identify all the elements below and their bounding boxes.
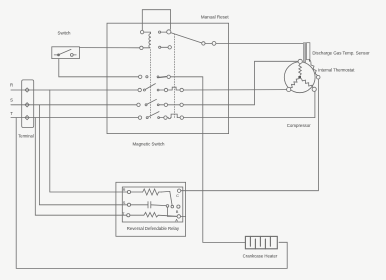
terminal block — [22, 80, 34, 128]
svg-text:Internal Thermostat: Internal Thermostat — [318, 68, 355, 73]
compressor terminal left — [287, 87, 291, 91]
mechanical linkage (coil armature, dashed) — [150, 50, 152, 120]
crankcase heater — [245, 236, 277, 248]
terminal point T — [25, 116, 29, 120]
wire: T main contact to compressor — [184, 91, 315, 117]
relay R input and resistor — [127, 189, 161, 195]
terminal point S — [25, 103, 29, 107]
wire: auxiliary contact to crankcase heater — [170, 77, 245, 243]
svg-text:Switch: Switch — [58, 31, 71, 36]
svg-text:Manual Reset: Manual Reset — [201, 14, 230, 19]
svg-text:S: S — [10, 97, 13, 102]
svg-text:Discharge Gas Temp. Sensor: Discharge Gas Temp. Sensor — [312, 51, 370, 56]
wire: internal thermostat to relay C — [181, 79, 319, 191]
main contact T row — [138, 112, 183, 120]
wire: phase T line — [11, 117, 138, 119]
manual reset contact — [159, 30, 216, 49]
relay S input and capacitor — [127, 202, 166, 208]
wire: S tap to relay S — [39, 105, 127, 205]
relay contact C — [162, 189, 181, 205]
wire: phase R line — [11, 89, 138, 91]
svg-text:C: C — [176, 193, 179, 198]
wire: manual reset to discharge sensor — [216, 42, 304, 44]
switch — [52, 47, 80, 59]
svg-text:B: B — [176, 209, 179, 214]
internal thermostat — [309, 59, 320, 79]
wire: phase S line — [11, 104, 137, 106]
svg-text:A: A — [175, 218, 178, 223]
svg-text:T: T — [10, 111, 13, 116]
svg-text:Terminal: Terminal — [18, 133, 34, 138]
relay contact A — [167, 207, 185, 218]
svg-text:R: R — [123, 187, 126, 192]
compressor winding top — [299, 64, 302, 75]
reversal defendable relay outer box — [116, 182, 186, 236]
main contact S row — [137, 99, 184, 106]
main contact R row — [138, 84, 183, 92]
wire: S main contact to compressor top — [183, 61, 298, 105]
svg-text:Reversal Defendable Relay: Reversal Defendable Relay — [127, 226, 180, 231]
svg-text:S: S — [123, 200, 126, 205]
compressor winding right — [302, 79, 313, 88]
compressor winding left — [290, 79, 298, 88]
magnetic switch enclosure — [107, 23, 229, 133]
reversal defendable relay inner box — [122, 187, 183, 222]
compressor motor body — [284, 62, 315, 93]
auxiliary contact row — [139, 75, 171, 78]
compressor terminal right — [312, 87, 316, 91]
wire: switch bottom to auxiliary contact — [59, 59, 139, 77]
svg-text:Crankcase Heater: Crankcase Heater — [243, 253, 278, 258]
coil MC (magnetic switch operating coil) — [140, 30, 151, 49]
wire: T tap to relay T — [35, 118, 126, 216]
discharge gas temp sensor — [303, 43, 310, 62]
wire: R tap to relay R — [50, 90, 128, 192]
wire: T tap to bottom run — [16, 118, 287, 269]
relay T input and inductor — [127, 212, 177, 217]
wire: switch output to coil — [79, 47, 139, 49]
manual reset loop wire — [142, 10, 170, 30]
mechanical linkage (overload trip bar, dashed) — [174, 34, 176, 119]
terminal point R — [25, 88, 29, 92]
svg-text:Compressor: Compressor — [287, 123, 311, 128]
svg-text:Magnetic Switch: Magnetic Switch — [133, 142, 166, 147]
svg-text:R: R — [10, 83, 13, 88]
relay contact B — [166, 205, 180, 209]
compressor terminal top — [298, 59, 302, 63]
wire: R main contact to compressor — [183, 89, 286, 91]
compressor winding common node — [298, 76, 301, 79]
